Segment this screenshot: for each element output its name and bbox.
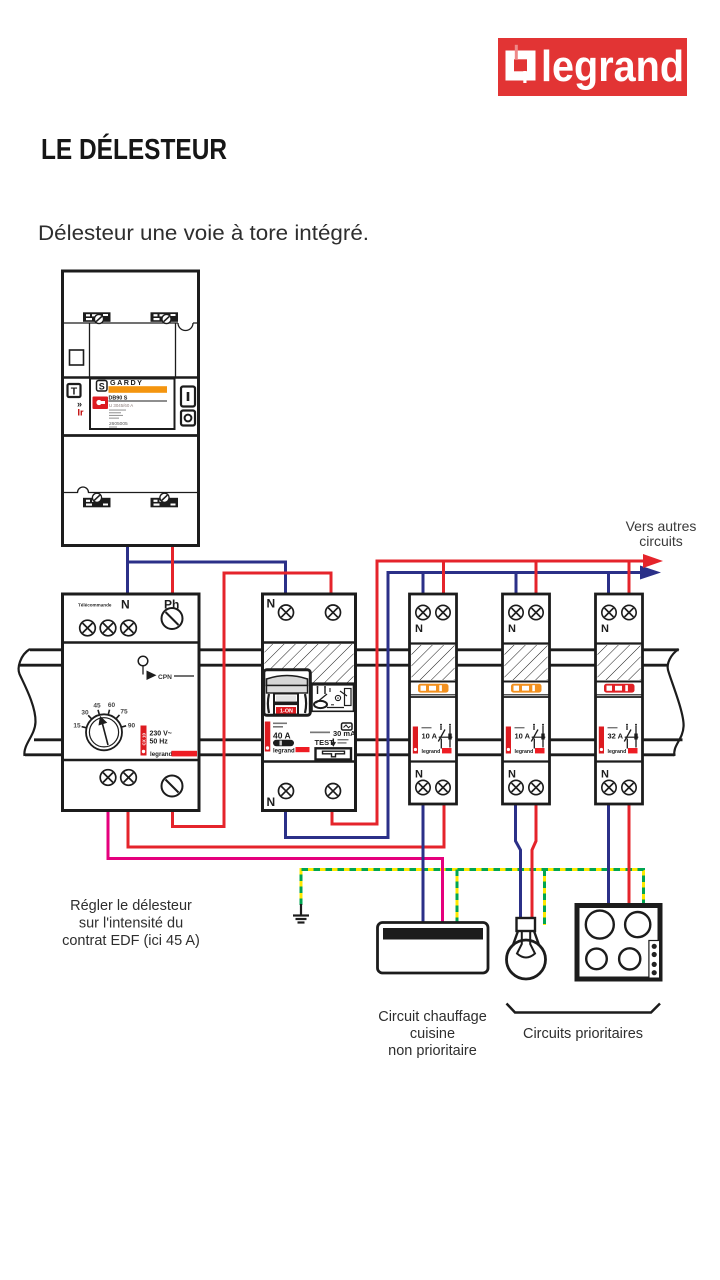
earth branch to radiator (456, 870, 459, 924)
divider (263, 641, 356, 643)
inner schematic box (312, 685, 354, 712)
svg-text:N: N (415, 769, 423, 781)
inner panel verticals (89, 323, 91, 378)
terminal clamp bottom-right (151, 493, 179, 507)
main breaker DB90 outer box (63, 271, 199, 546)
I button (181, 387, 195, 407)
svg-text:230 V~: 230 V~ (150, 731, 172, 738)
bottom screw 2 (121, 770, 137, 786)
rail left torn edge (19, 649, 36, 756)
hatched window (265, 644, 354, 683)
screw terminal 1 (80, 620, 96, 636)
svg-text:N: N (267, 795, 276, 809)
svg-text:legrand: legrand (150, 751, 173, 758)
earth stub near lamp (543, 870, 546, 926)
screw terminal 3 (121, 620, 137, 636)
svg-text:LE DÉLESTEUR: LE DÉLESTEUR (41, 134, 227, 166)
bottom divider (263, 760, 356, 762)
tiny rating text (273, 723, 287, 725)
wire: phase delesteur out loop to RCD (173, 573, 332, 827)
DIN rail band 2 (25, 740, 683, 755)
text vers autres circuits (626, 518, 697, 549)
svg-text:30 mA: 30 mA (333, 729, 356, 738)
S icon (97, 381, 108, 392)
rail right torn edge (668, 649, 684, 756)
blue tap breaker2 (515, 573, 518, 595)
svg-text:10 A: 10 A (422, 732, 438, 741)
svg-text:N: N (267, 597, 276, 611)
svg-text:N: N (415, 623, 423, 635)
svg-text:N: N (601, 769, 609, 781)
svg-text:legrand: legrand (608, 749, 627, 755)
divider line upper with notch (64, 323, 197, 331)
black pill switch icon (273, 740, 294, 746)
svg-text:Délesteur une voie à tore inté: Délesteur une voie à tore intégré. (38, 221, 369, 245)
red tap breaker1 (442, 561, 445, 594)
O button (181, 411, 195, 426)
svg-text:S: S (99, 381, 105, 391)
Ph big screw (162, 608, 183, 629)
legrand logo (498, 38, 687, 96)
T test button (68, 384, 81, 397)
red tap breaker2 (535, 561, 538, 594)
wire: RCD phase out to red bus (332, 561, 646, 824)
circuit breaker 1 (10A chauffage) (410, 594, 457, 804)
svg-text:non prioritaire: non prioritaire (388, 1043, 477, 1059)
delesteur module outer box (63, 594, 200, 811)
red bus arrowhead (643, 554, 663, 568)
wire: breaker1 neutral to radiator (422, 804, 425, 923)
svg-text:50 Hz: 50 Hz (150, 739, 169, 746)
toggle switch (264, 670, 311, 716)
red pictogram square (93, 397, 109, 410)
radiator (378, 923, 489, 974)
svg-text:75: 75 (120, 709, 128, 716)
ground symbol (293, 904, 309, 923)
svg-text:60: 60 (108, 702, 116, 709)
text circuit chauffage (378, 1009, 487, 1059)
lamp (507, 918, 546, 979)
svg-text:CX 10: CX 10 (142, 732, 147, 745)
svg-text:10 A: 10 A (515, 732, 531, 741)
svg-text:15: 15 (73, 723, 81, 730)
blue bus arrowhead (640, 566, 661, 580)
wire: breaker2 phase to lamp (532, 804, 536, 919)
wire: neutral branch to RCD (126, 562, 286, 594)
svg-text:45: 45 (93, 703, 101, 710)
svg-text:1-ON: 1-ON (280, 709, 293, 715)
dial numbers (73, 702, 135, 730)
circuit breaker 3 (32A cuisson) (596, 594, 643, 804)
svg-text:cuisine: cuisine (410, 1026, 455, 1042)
rating label box (90, 379, 175, 430)
svg-text:Circuit chauffage: Circuit chauffage (378, 1009, 487, 1025)
red reference bar (141, 726, 147, 756)
svg-text:GARDY: GARDY (110, 378, 143, 387)
rotary dial (86, 714, 122, 750)
wire: delesteur magenta to radiator (108, 811, 443, 924)
earth wire main run (301, 870, 644, 906)
dial tick marks (82, 710, 127, 728)
blue tap breaker1 (422, 573, 425, 595)
bracket circuits prioritaires (507, 1004, 661, 1013)
30 mA (310, 732, 330, 734)
top screw left (279, 605, 294, 620)
DIN rail band 1 (20, 650, 679, 665)
svg-text:contrat EDF (ici 45 A): contrat EDF (ici 45 A) (62, 933, 200, 949)
blue tap breaker3 (607, 573, 610, 595)
svg-text:90: 90 (128, 723, 136, 730)
wire: phase main breaker to delesteur (171, 546, 174, 595)
bottom screw 1 (100, 770, 116, 786)
camera icon (342, 723, 353, 730)
terminal clamp top-right (151, 312, 179, 323)
svg-text:Télécommande: Télécommande (78, 603, 112, 608)
svg-text:2605005: 2605005 (109, 421, 128, 427)
svg-text:N: N (508, 623, 516, 635)
svg-text:legrand: legrand (515, 749, 534, 755)
svg-text:U 3045/60 A: U 3045/60 A (109, 403, 133, 408)
bottom big screw (162, 776, 183, 797)
svg-text:T: T (71, 386, 78, 398)
RCD module outer box (263, 594, 357, 811)
svg-text:40 A: 40 A (273, 731, 291, 741)
wire: breaker3 neutral to cooktop (607, 804, 610, 903)
lower thin line with bump (64, 487, 197, 493)
wire: breaker3 phase to cooktop (628, 804, 631, 903)
bottom screw right (326, 784, 341, 799)
svg-text:legrand: legrand (541, 42, 684, 91)
svg-text:Circuits prioritaires: Circuits prioritaires (523, 1026, 643, 1042)
test button (316, 748, 352, 759)
svg-text:CPN: CPN (158, 674, 172, 681)
circuit breaker 2 (10A prioritaire) (503, 594, 550, 804)
screw terminal 2 (100, 620, 116, 636)
svg-text:Ir: Ir (78, 408, 85, 418)
svg-text:legrand: legrand (422, 749, 441, 755)
thick divider above label row (63, 376, 199, 379)
svg-text:sur l'intensité du: sur l'intensité du (79, 916, 183, 932)
svg-text:32 A: 32 A (608, 732, 624, 741)
red tap breaker3 (628, 561, 631, 594)
svg-text:circuits: circuits (639, 533, 683, 549)
svg-text:N: N (508, 769, 516, 781)
svg-text:N: N (121, 598, 130, 612)
svg-text:Vers autres: Vers autres (626, 518, 697, 534)
bottom screw left (279, 784, 294, 799)
svg-text:N: N (601, 623, 609, 635)
svg-text:30: 30 (81, 710, 89, 717)
wire: neutral main breaker to delesteur (126, 546, 129, 595)
svg-text:legrand: legrand (273, 749, 295, 755)
wire: RCD neutral out to blue bus (286, 573, 644, 838)
wire: delesteur red to breaker1 bottom (128, 804, 444, 847)
wire: breaker2 neutral to lamp (516, 804, 521, 919)
terminal clamp bottom-left (83, 493, 111, 507)
meter window square (70, 350, 84, 365)
cooktop (577, 906, 660, 980)
red brand rect (296, 747, 310, 752)
svg-text:Régler le délesteur: Régler le délesteur (70, 898, 192, 914)
terminal clamp top-left (83, 312, 111, 323)
text regler le delesteur (62, 898, 200, 949)
orange bar (109, 386, 168, 393)
red rating bar (265, 722, 271, 752)
thick divider below label row (63, 434, 199, 437)
CPN symbol (138, 656, 194, 680)
top screw right (326, 605, 341, 620)
red brand rect (172, 751, 198, 757)
